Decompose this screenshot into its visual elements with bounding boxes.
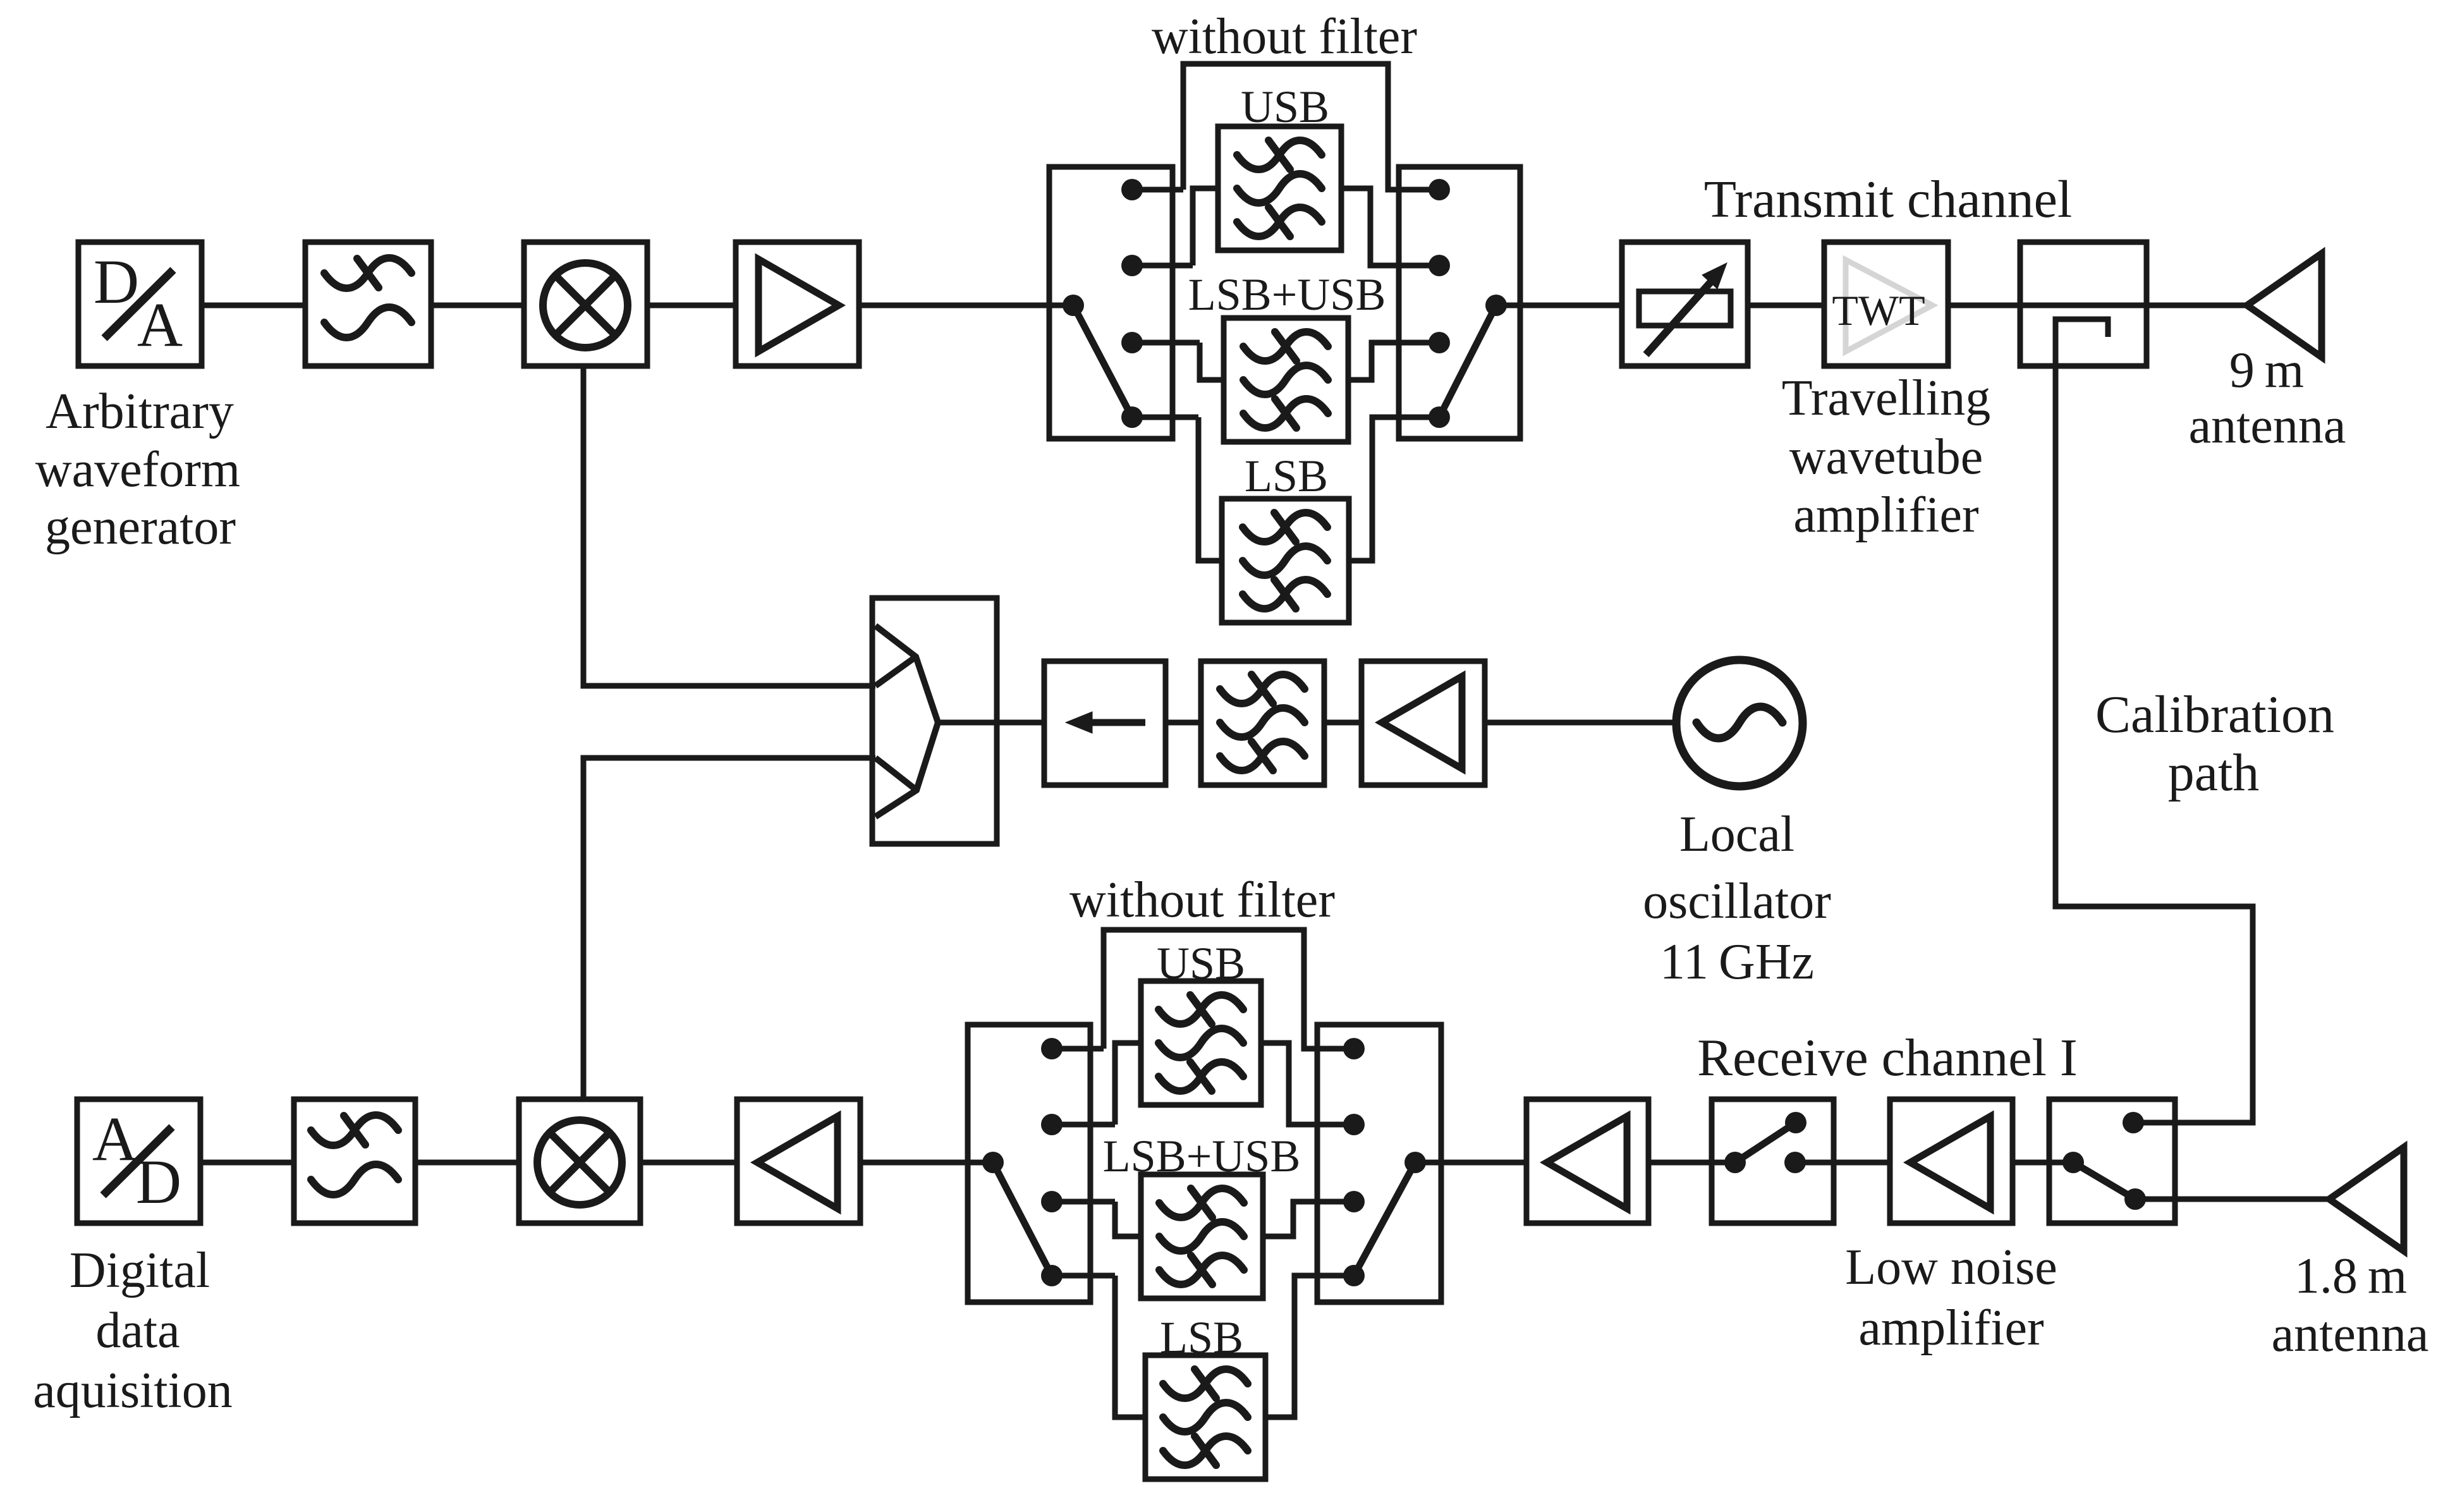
svg-text:LSB: LSB <box>1160 1312 1243 1363</box>
svg-text:oscillator: oscillator <box>1643 874 1831 929</box>
svg-text:antenna: antenna <box>2272 1307 2429 1362</box>
svg-text:data: data <box>95 1303 180 1358</box>
svg-text:TWT: TWT <box>1832 286 1925 334</box>
svg-text:generator: generator <box>45 499 236 555</box>
svg-text:Low noise: Low noise <box>1845 1240 2057 1295</box>
svg-text:USB: USB <box>1241 82 1329 132</box>
svg-text:without filter: without filter <box>1152 9 1417 64</box>
svg-text:path: path <box>2168 743 2260 802</box>
svg-text:LSB: LSB <box>1245 451 1328 501</box>
svg-text:11 GHz: 11 GHz <box>1660 934 1814 990</box>
svg-text:Arbitrary: Arbitrary <box>46 384 234 439</box>
svg-text:1.8 m: 1.8 m <box>2294 1248 2407 1304</box>
svg-text:LSB+USB: LSB+USB <box>1103 1131 1301 1181</box>
svg-text:aquisition: aquisition <box>33 1363 233 1418</box>
svg-text:Transmit channel: Transmit channel <box>1704 170 2073 229</box>
svg-text:wavetube: wavetube <box>1789 429 1983 485</box>
svg-text:amplifier: amplifier <box>1793 487 1978 543</box>
svg-text:9 m: 9 m <box>2229 343 2304 398</box>
svg-text:without filter: without filter <box>1069 872 1335 928</box>
svg-text:Digital: Digital <box>70 1243 210 1298</box>
svg-text:waveform: waveform <box>35 442 240 497</box>
svg-text:Calibration: Calibration <box>2095 685 2334 744</box>
svg-text:antenna: antenna <box>2189 398 2346 454</box>
svg-text:LSB+USB: LSB+USB <box>1188 269 1386 320</box>
svg-text:Receive channel I: Receive channel I <box>1697 1028 2078 1087</box>
svg-text:Local: Local <box>1679 807 1794 862</box>
svg-text:Travelling: Travelling <box>1782 370 1990 426</box>
svg-text:USB: USB <box>1157 938 1245 989</box>
svg-text:amplifier: amplifier <box>1858 1300 2044 1356</box>
